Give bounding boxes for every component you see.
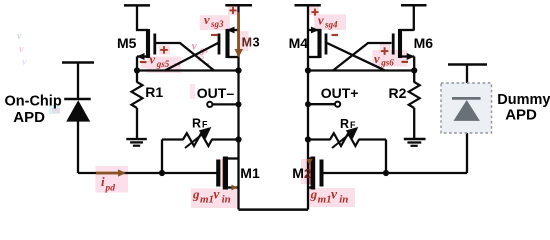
svg-text:v: v bbox=[374, 52, 380, 66]
svg-text:F: F bbox=[202, 119, 208, 129]
svg-text:R: R bbox=[192, 116, 201, 130]
svg-text:v: v bbox=[204, 13, 210, 27]
svg-text:gs6: gs6 bbox=[380, 58, 394, 68]
svg-text:2: 2 bbox=[304, 166, 311, 181]
svg-text:v: v bbox=[22, 57, 27, 68]
svg-text:APD: APD bbox=[505, 107, 537, 124]
svg-text:M1: M1 bbox=[240, 165, 260, 181]
svg-text:v: v bbox=[331, 187, 338, 202]
svg-text:On-Chip: On-Chip bbox=[5, 93, 62, 109]
svg-text:g: g bbox=[192, 187, 200, 202]
svg-text:pd: pd bbox=[105, 184, 116, 194]
svg-text:sg3: sg3 bbox=[210, 19, 224, 29]
svg-text:gs5: gs5 bbox=[156, 59, 170, 69]
svg-text:sg4: sg4 bbox=[324, 20, 338, 30]
svg-text:M4: M4 bbox=[289, 35, 309, 51]
svg-text:OUT+: OUT+ bbox=[321, 85, 359, 101]
svg-text:APD: APD bbox=[13, 109, 45, 126]
svg-text:M: M bbox=[292, 165, 304, 181]
svg-text:R1: R1 bbox=[145, 84, 163, 100]
svg-text:g: g bbox=[310, 187, 318, 202]
svg-text:v: v bbox=[318, 14, 324, 28]
svg-text:F: F bbox=[350, 120, 356, 130]
svg-text:v: v bbox=[213, 187, 220, 202]
svg-text:in: in bbox=[222, 194, 231, 206]
svg-text:M6: M6 bbox=[414, 35, 434, 51]
svg-text:m1: m1 bbox=[200, 194, 214, 206]
svg-text:i: i bbox=[101, 174, 105, 189]
svg-text:3: 3 bbox=[253, 35, 260, 49]
svg-text:v: v bbox=[150, 53, 156, 67]
svg-text:M: M bbox=[242, 35, 252, 49]
svg-text:Dummy: Dummy bbox=[497, 92, 550, 108]
svg-text:OUT–: OUT– bbox=[197, 85, 235, 101]
svg-text:R2: R2 bbox=[389, 85, 407, 101]
svg-text:R: R bbox=[340, 117, 349, 131]
svg-text:m1: m1 bbox=[318, 194, 332, 206]
svg-text:in: in bbox=[339, 194, 348, 206]
svg-text:v: v bbox=[19, 44, 24, 55]
svg-text:v: v bbox=[17, 31, 22, 42]
svg-text:M5: M5 bbox=[117, 35, 137, 51]
